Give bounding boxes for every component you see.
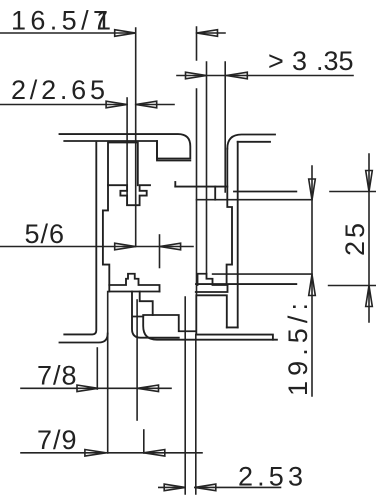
svg-text:1: 1 [96,6,111,36]
dim line >3.35 [177,75,353,77]
dim line 19.5 vertical [311,166,313,396]
dim line 7/9 [21,452,202,454]
profile bottom T tab left [109,274,159,292]
arrowhead left at x159.6 [160,243,181,250]
arrowhead left at x143.8 [144,450,165,457]
arrowhead down at y200 [309,179,316,200]
extension line x143.8 (7/9 right) [143,430,145,453]
arrowhead left at x194.8 [195,484,216,491]
extension line x196.5 upper [196,27,198,295]
dim line 7/8 [21,387,171,389]
arrowhead right at x185.2 [164,484,185,491]
extension line x225.2 [224,62,226,192]
dim line 25 vertical [368,154,370,322]
arrowhead down at y191.5 [366,171,373,192]
profile bottom screw channel [196,295,227,334]
profile left wall step [103,185,109,291]
arrowhead left at x137.5 [136,101,157,108]
profile bottom center tab [143,315,277,340]
svg-text:25: 25 [340,223,370,256]
extension line x185.2 (2.53 left) [184,297,186,494]
arrowhead left at x196.5 [197,30,218,37]
dim line 2.53 [159,486,281,488]
profile top-right arm [227,135,275,149]
profile top channel mouth [174,182,176,187]
arrowhead left at x137.5 [138,385,159,392]
extension line y200 right (19.5 top) [197,199,313,201]
extension line y191.5 right (25 top) [330,191,376,193]
svg-text:19.5/:: 19.5/: [283,303,313,396]
profile left wall [64,143,96,335]
profile bottom right arm lines [196,335,273,340]
arrowhead right at x105.9 [85,450,106,457]
extension line x195.8 (2.53 right) [195,335,197,494]
profile box bottom inner edge left [109,291,159,293]
extension line x135.7 tall [135,28,137,247]
svg-text:.35: .35 [316,46,354,76]
extension line x137.5 (7/8 right) [136,300,138,420]
arrowhead right at x127 [106,101,127,108]
arrowhead right at x137 [115,30,136,37]
svg-text:5/6: 5/6 [25,219,65,249]
profile bottom-left outer hook [60,334,108,343]
profile bottom center tab outer line [132,292,179,338]
extension line y285.5 right (25 bottom) [329,285,376,287]
extension line x107.7 (7/9 left) [107,292,109,454]
dim line 16.5/7 right tail [197,32,226,34]
extension line x97.3 (7/8 left) [96,348,98,389]
profile top-right arm left edge down [227,149,232,284]
svg-text:16.5/7: 16.5/7 [11,6,108,36]
svg-text:>3: >3 [268,46,307,76]
svg-text:7/9: 7/9 [37,425,77,455]
profile right bottom tab edge [196,283,296,285]
profile top slot cavity [214,187,216,200]
arrowhead up at y274.5 [309,275,316,296]
profile bottom slot center bump [198,274,228,285]
profile inner top edge with T tab [108,185,150,205]
dim line 2/2.65 right tail [136,104,174,106]
dim line 2/2.65 left part [0,104,127,106]
extension line y274.1 right (19.5 bottom) [213,273,312,275]
extension line x206.5 [206,62,208,274]
profile left screw channel [108,143,138,186]
dim line 16.5/7 left part [0,32,136,34]
profile top lip under arm [157,141,190,161]
dim line 5/6 [0,246,193,248]
arrowhead right at x98 [77,385,98,392]
extension line x159.5 (5/6 right) [159,235,161,268]
profile top slot inner edge [175,186,227,188]
profile bottom slot mouth left [140,292,153,316]
profile right wall main [237,142,239,328]
svg-text:7/8: 7/8 [37,361,77,391]
profile bottom channel notch [196,285,238,327]
svg-text:2/2.65: 2/2.65 [11,75,105,105]
arrowhead right at x206.5 [186,72,207,79]
profile right top tab edge [234,191,296,193]
extension line x127 [126,98,128,205]
arrowhead right at x136 [115,243,136,250]
profile top-left arm outer edge [60,134,191,158]
arrowhead left at x226.3 [226,72,247,79]
arrowhead up at y285.5 [366,286,373,307]
